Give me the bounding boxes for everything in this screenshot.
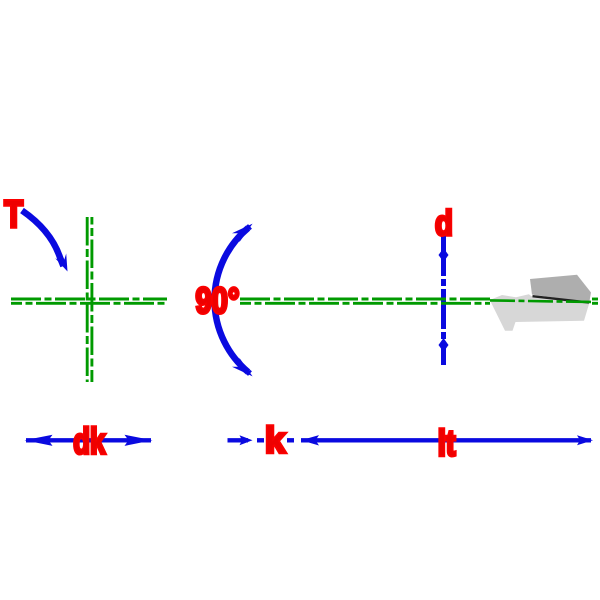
upper diamond arrowhead [439,248,449,262]
svg-text:T: T [4,194,23,236]
vertical green center line of crosshair [87,217,92,382]
dark bottom edge of upper facet [533,296,590,302]
vertical d dimension line (blue dash-dot) [439,236,449,365]
lt dimension line with end arrows (blue) [301,435,593,445]
lower tool body (light gray polygon) [490,294,590,331]
90-degree arc with arrowheads (blue) [215,224,253,377]
dk dimension double arrow (blue) [25,435,153,446]
k dimension arrows pointing inward (blue) [228,435,320,445]
horizontal green center axis [11,299,598,303]
lower diamond arrowhead [439,338,449,352]
svg-text:d: d [435,204,453,243]
svg-text:90°: 90° [196,280,240,321]
T rotation arrow (blue curve) [22,211,68,272]
svg-text:lt: lt [438,423,456,464]
svg-text:dk: dk [73,420,106,461]
upper tool facet (darker gray polygon) [530,275,591,303]
svg-text:k: k [265,420,286,461]
green axis over tool body (single thin line) [490,300,592,302]
